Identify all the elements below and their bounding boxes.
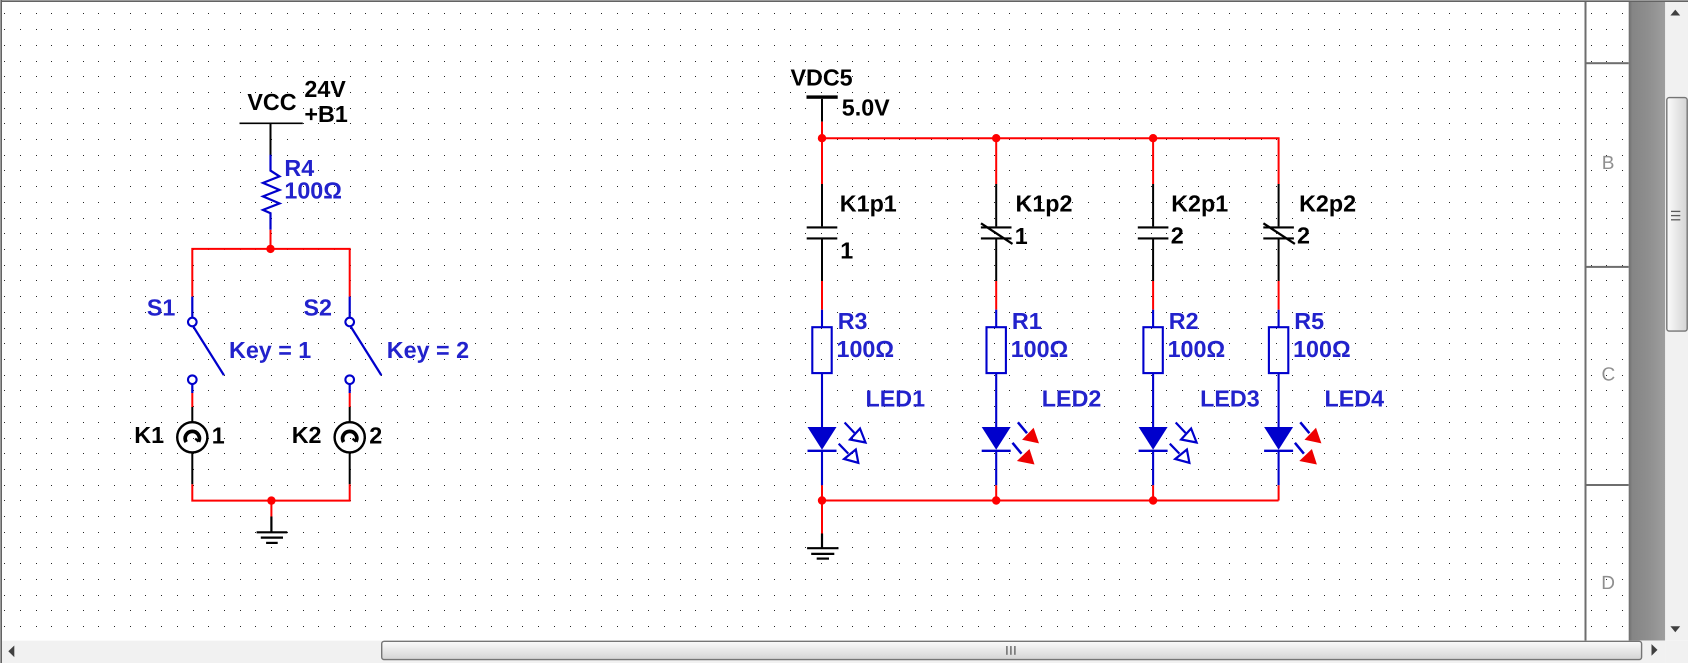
svg-text:1: 1 <box>840 238 853 264</box>
wire S2 to K2 <box>349 393 351 407</box>
LED4 <box>1264 427 1293 485</box>
svg-text:100Ω: 100Ω <box>837 336 895 362</box>
svg-text:1: 1 <box>212 423 225 449</box>
LED2 arrows (lit) <box>1013 422 1040 464</box>
window top border <box>0 0 1688 1</box>
wire LED3 to bottom rail <box>1152 485 1154 500</box>
wire S1 to K1 <box>191 393 193 407</box>
horizontal scrollbar track <box>2 641 1665 663</box>
svg-text:LED3: LED3 <box>1200 386 1260 412</box>
pin VDC5 <box>821 99 823 122</box>
vertical scrollbar up arrow <box>1670 10 1680 16</box>
junction rail R4 <box>266 245 274 253</box>
switch S2 <box>345 297 381 393</box>
horizontal scrollbar thumb <box>382 641 1642 659</box>
pin K2p1 bottom <box>1152 239 1154 281</box>
branch 2: wire rail to K1p2 <box>995 138 997 184</box>
wire LED2 to bottom rail <box>995 485 997 500</box>
horizontal scrollbar right arrow <box>1652 644 1658 656</box>
svg-text:K2p1: K2p1 <box>1171 191 1228 217</box>
svg-text:2: 2 <box>369 423 382 449</box>
sheet frame vertical line <box>1585 2 1587 641</box>
svg-text:2: 2 <box>1297 223 1310 249</box>
zone divider 1 <box>1585 62 1629 64</box>
vertical thumb grip <box>1671 211 1680 219</box>
resistor R4 <box>263 155 280 230</box>
vertical scrollbar track <box>1665 2 1688 641</box>
pin into K2 <box>349 407 351 422</box>
branch 3: wire rail to K2p1 <box>1152 138 1154 184</box>
pin K1p1 top <box>821 184 823 226</box>
svg-text:100Ω: 100Ω <box>1011 336 1069 362</box>
relay contact K2p2 (NC) <box>1263 223 1295 244</box>
svg-text:K2: K2 <box>292 422 322 448</box>
svg-text:K1: K1 <box>134 422 164 448</box>
relay coil K1 <box>177 422 207 452</box>
window left border <box>0 0 1 663</box>
resistor R1 <box>987 310 1006 427</box>
pin K2p2 bottom <box>1278 239 1280 281</box>
svg-text:S1: S1 <box>147 295 176 321</box>
LED1 <box>808 427 837 485</box>
svg-text:LED1: LED1 <box>866 386 926 412</box>
svg-text:2: 2 <box>1171 223 1184 249</box>
wire LED4 to bottom rail <box>1278 485 1280 500</box>
pin K1p2 top <box>995 184 997 226</box>
horizontal thumb grip <box>1007 646 1015 655</box>
LED1 arrows (off) <box>839 423 866 463</box>
svg-text:100Ω: 100Ω <box>284 178 342 204</box>
LED3 arrows (off) <box>1170 423 1197 463</box>
junction rail b1 <box>818 134 826 142</box>
wire top rail left <box>192 249 349 297</box>
svg-text:K2p2: K2p2 <box>1299 191 1356 217</box>
zone divider 2 <box>1585 266 1629 268</box>
LED3 <box>1139 427 1168 485</box>
zone divider 3 <box>1585 484 1629 486</box>
vertical scrollbar thumb <box>1667 98 1687 332</box>
svg-text:100Ω: 100Ω <box>1168 336 1226 362</box>
svg-text:D: D <box>1601 573 1615 594</box>
resistor R5 <box>1269 310 1288 427</box>
branch 4: pin K2p2 top <box>1278 184 1280 226</box>
svg-text:R5: R5 <box>1294 308 1324 334</box>
relay contact K2p1 (NO) <box>1138 227 1169 238</box>
svg-text:VDC5: VDC5 <box>791 64 853 90</box>
pin below K2 <box>349 452 351 484</box>
wire LED1 to bottom rail <box>821 485 823 500</box>
relay coil K2 <box>335 422 365 452</box>
wire K1p1 to R3 <box>821 281 823 310</box>
svg-text:Key = 1: Key = 1 <box>229 337 311 363</box>
wire top rail right <box>822 138 1279 184</box>
pin K1p2 bottom <box>995 239 997 281</box>
svg-text:R1: R1 <box>1012 308 1042 334</box>
svg-text:100Ω: 100Ω <box>1293 336 1351 362</box>
svg-text:VCC: VCC <box>247 89 296 115</box>
svg-text:S2: S2 <box>304 295 333 321</box>
pin below K1 <box>191 452 193 484</box>
svg-text:24V: 24V <box>304 76 346 102</box>
vertical scrollbar down arrow <box>1670 626 1680 632</box>
LED4 arrows (lit) <box>1295 422 1322 464</box>
svg-text:R2: R2 <box>1169 308 1199 334</box>
junction bottom b3 <box>1149 496 1157 504</box>
scrollbar corner <box>1665 641 1688 663</box>
power VCC symbol bar <box>240 122 303 124</box>
wire VCC to R4 <box>270 123 272 155</box>
svg-text:5.0V: 5.0V <box>842 95 890 121</box>
wire VDC5 to rail <box>821 122 823 139</box>
svg-text:C: C <box>1602 365 1616 386</box>
source VDC5 bar <box>807 95 838 98</box>
wire bottom rail left <box>192 484 349 500</box>
relay contact K1p2 (NC) <box>981 223 1013 244</box>
svg-text:1: 1 <box>1015 223 1028 249</box>
pin into K1 <box>191 407 193 422</box>
relay contact K1p1 (NO) <box>807 227 838 238</box>
wire R4 to rail <box>270 230 272 249</box>
horizontal scrollbar left arrow <box>8 646 14 658</box>
resistor R2 <box>1143 310 1162 427</box>
wire K1p2 to R1 <box>995 281 997 310</box>
junction bottom b2 <box>992 496 1000 504</box>
junction bottom rail <box>267 496 275 504</box>
branch 1: wire rail to K1p1 <box>821 138 823 184</box>
LED2 <box>982 427 1011 485</box>
ground left <box>257 517 288 543</box>
svg-text:Key = 2: Key = 2 <box>387 337 469 363</box>
wire bottom rail right <box>822 500 1279 502</box>
ground right <box>807 534 838 559</box>
junction bottom b1 <box>818 496 826 504</box>
pin K1p1 bottom <box>821 239 823 281</box>
svg-text:LED4: LED4 <box>1325 386 1385 412</box>
junction rail b2 <box>992 134 1000 142</box>
svg-text:R3: R3 <box>838 308 868 334</box>
wire K2p2 to R5 <box>1278 281 1280 310</box>
svg-text:LED2: LED2 <box>1042 386 1102 412</box>
resistor R3 <box>812 310 831 427</box>
svg-text:K1p2: K1p2 <box>1016 191 1073 217</box>
pin K2p1 top <box>1152 184 1154 226</box>
junction rail b3 <box>1149 134 1157 142</box>
gray band outside sheet <box>1629 2 1666 641</box>
svg-text:+B1: +B1 <box>304 101 347 127</box>
svg-text:K1p1: K1p1 <box>840 191 897 217</box>
switch S1 <box>188 297 224 393</box>
svg-text:B: B <box>1602 153 1615 174</box>
wire to ground right <box>821 501 823 534</box>
wire to ground left <box>270 501 272 517</box>
wire K2p1 to R2 <box>1152 281 1154 310</box>
